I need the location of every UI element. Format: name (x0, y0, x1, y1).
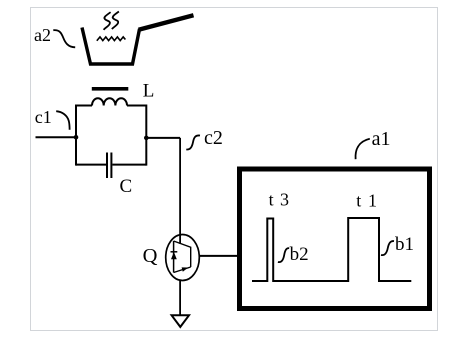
svg-text:a1: a1 (372, 128, 391, 150)
pulse generator box a1 (240, 169, 430, 309)
crucible / melting pot (a2) (82, 15, 194, 64)
svg-text:3: 3 (280, 189, 289, 209)
heat squiggle 1 (104, 12, 111, 30)
svg-text:L: L (143, 81, 155, 102)
tank loop: bottom edge segments (76, 164, 146, 166)
heat squiggle 2 (112, 12, 119, 30)
leader for c2 (186, 135, 200, 149)
svg-text:b2: b2 (290, 244, 309, 265)
waveform: baseline with pulse t3 and pulse t1 (252, 218, 411, 281)
svg-text:Q: Q (143, 245, 158, 267)
tank loop: left edge (75, 105, 77, 166)
leader for b1 (381, 241, 394, 255)
tank loop: top edge segments (76, 105, 146, 107)
leader for a2 (53, 30, 75, 47)
wire: Q emitter to ground (179, 280, 181, 315)
wire: node c2 down to Q collector (179, 138, 181, 244)
svg-text:b1: b1 (395, 234, 414, 255)
svg-text:C: C (120, 176, 133, 197)
wire: Q gate to pulse box (199, 255, 237, 257)
wire: left input lead (36, 136, 77, 138)
svg-text:t: t (269, 189, 274, 209)
capacitor C plates (107, 153, 111, 179)
wire: tank to node c2 (146, 137, 180, 139)
svg-text:t: t (356, 191, 361, 211)
melt surface zigzag (97, 37, 126, 41)
leader for a1 (356, 139, 370, 160)
junction dot left (74, 135, 79, 140)
transistor Q (166, 235, 200, 281)
svg-text:c1: c1 (35, 107, 52, 127)
junction dot right (144, 136, 149, 141)
leader for c1 (56, 111, 69, 130)
ground (172, 315, 189, 327)
svg-text:c2: c2 (204, 127, 223, 149)
svg-text:1: 1 (368, 191, 377, 211)
leader for b2 (278, 248, 289, 262)
tank loop: right edge (145, 105, 147, 166)
svg-text:a2: a2 (34, 25, 51, 45)
inductor L coil (92, 98, 127, 105)
workpiece bar above coil (92, 87, 129, 91)
